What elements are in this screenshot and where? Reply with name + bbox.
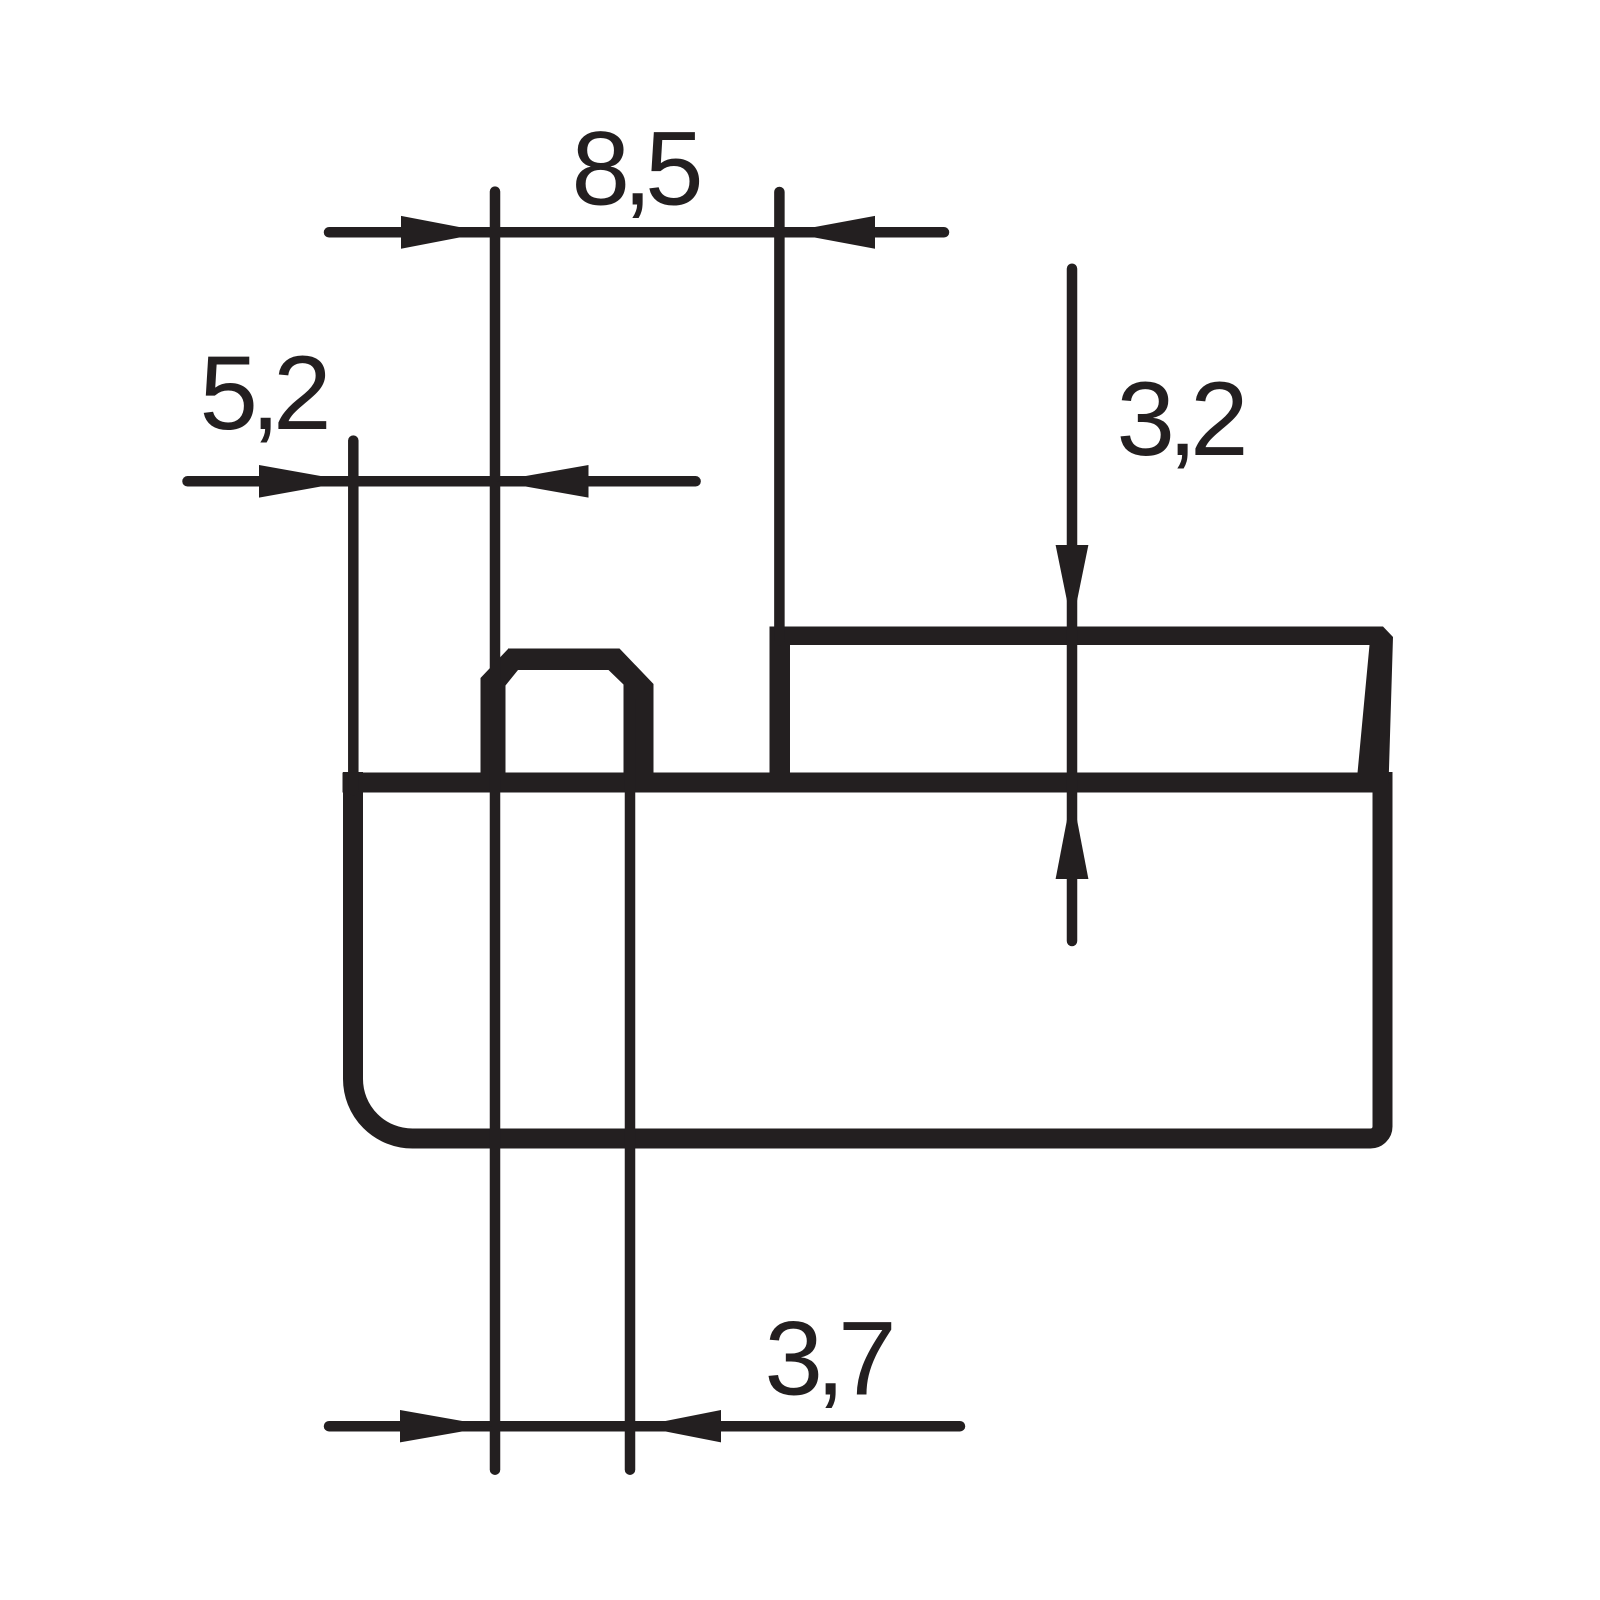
svg-text:8,5: 8,5 — [572, 111, 700, 228]
arrowhead 5,2 right — [496, 465, 589, 498]
arrowhead 5,2 left — [259, 465, 350, 498]
arrowhead 8,5 left — [401, 216, 487, 249]
arrowhead 3,7 right — [639, 1410, 721, 1442]
body top surface line — [343, 773, 1393, 793]
extension line C (x=352, left reference of 5,2) — [348, 441, 359, 790]
arrowhead 3,2 up — [1056, 794, 1089, 879]
svg-text:5,2: 5,2 — [200, 335, 328, 452]
dimension line 5,2 — [188, 476, 696, 487]
arrowhead 3,7 left — [400, 1410, 492, 1442]
extension line B (x=779, right reference of 8,5) — [774, 192, 785, 640]
dimension line 8,5 — [329, 227, 944, 238]
main body outline (profile cross-section) — [353, 772, 1383, 1139]
extension line A (x=495, left reference) — [490, 192, 501, 1470]
dimension line 3,2 (vertical) — [1067, 269, 1078, 941]
top-right plate (upper flange) — [770, 627, 1394, 786]
svg-text:3,2: 3,2 — [1117, 361, 1245, 478]
svg-text:3,7: 3,7 — [765, 1301, 893, 1418]
dimension line 3,7 — [329, 1421, 960, 1432]
small raised tab (bump) on body top — [481, 649, 654, 793]
arrowhead 8,5 right — [787, 216, 876, 249]
extension line D (x=631, right reference of 3,7) — [625, 700, 636, 1470]
arrowhead 3,2 down — [1056, 545, 1089, 625]
